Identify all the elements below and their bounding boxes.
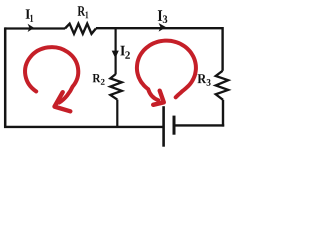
wire middle branch upper [114,27,116,74]
wire left side [4,27,7,127]
mesh loop 1 red arc [25,47,78,102]
battery short plate [173,116,176,135]
resistor R2 [110,74,122,100]
wire right side lower [222,100,224,127]
label I2 [120,46,129,59]
mesh loop 2 arrowhead [153,91,164,105]
wire top-right segment [96,27,223,29]
label I3 [158,10,168,23]
mesh loop 1 arrowhead [55,92,71,111]
wire bottom-left segment [4,126,164,128]
current arrow I3 head [159,23,167,32]
resistor R1 [65,24,96,34]
wire right side upper [221,27,223,71]
resistor R3 [216,71,229,100]
wire middle branch lower [116,100,118,128]
label R2 [93,74,105,85]
label I1 [26,9,34,22]
label R3 [198,74,211,86]
current arrow I2 head [112,51,119,59]
label R1 [78,6,89,18]
current arrow I1 head [28,24,35,32]
wire top-left segment [5,27,65,29]
wire bottom-right segment [174,124,224,126]
battery long plate [162,106,165,147]
mesh loop 2 red arc [137,41,196,101]
